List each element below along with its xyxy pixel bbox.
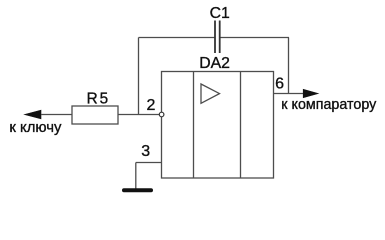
- svg-text:C1: C1: [210, 5, 230, 22]
- wire: pin 3 down to ground: [135, 163, 137, 189]
- svg-text:к компаратору: к компаратору: [281, 97, 377, 113]
- pin 2 inverting-input node circle: [159, 112, 164, 117]
- svg-text:DA2: DA2: [199, 55, 230, 72]
- wire: pin 3 input: [136, 162, 162, 164]
- wire: feedback right vertical: [288, 38, 290, 94]
- arrow to comparator (right): [303, 89, 318, 97]
- wire: top feedback, left segment: [139, 37, 216, 39]
- op-amp amplifier triangle: [201, 84, 220, 103]
- op-amp left divider: [193, 72, 195, 179]
- ground: [122, 188, 153, 192]
- wire: left arrow to resistor: [41, 114, 72, 116]
- svg-text:3: 3: [141, 143, 150, 160]
- svg-text:к ключу: к ключу: [9, 120, 62, 136]
- wire: top feedback, right segment: [220, 37, 289, 39]
- wire: feedback left vertical: [138, 38, 140, 115]
- svg-text:6: 6: [275, 76, 284, 93]
- arrow to key (left): [24, 110, 41, 119]
- capacitor C1: [215, 21, 220, 54]
- op-amp right divider: [240, 72, 242, 179]
- svg-text:R5: R5: [87, 91, 111, 108]
- op-amp DA2 body: [162, 72, 274, 179]
- resistor R5: [72, 106, 118, 124]
- wire: resistor to pin 2 node: [118, 114, 159, 116]
- wire: pin 6 output: [274, 93, 305, 95]
- svg-text:2: 2: [146, 97, 155, 114]
